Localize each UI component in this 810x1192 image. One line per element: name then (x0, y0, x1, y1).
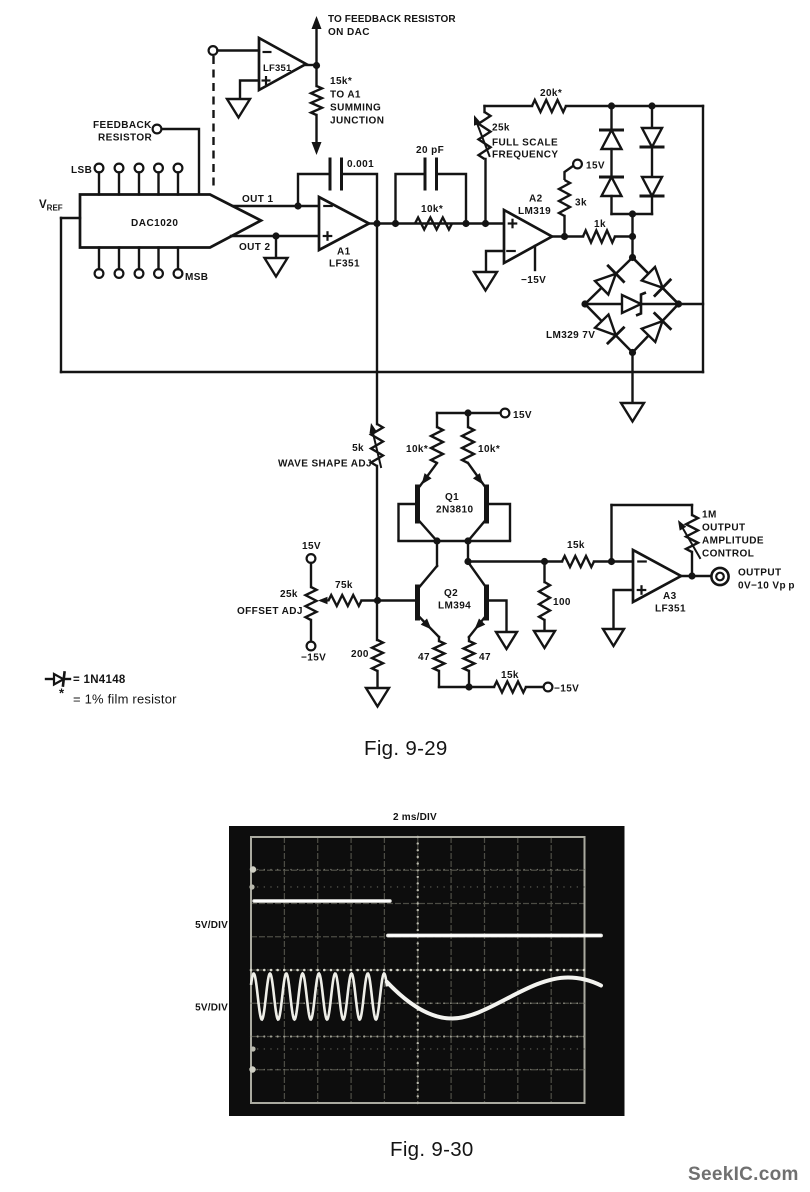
node: 1k / clamp junction (629, 233, 636, 240)
scope trace: lower square-wave low segment (388, 934, 601, 938)
wire: emitter rail (439, 686, 494, 688)
terminal: feedback resistor open circle (153, 125, 162, 134)
wire: A3 feedback top (612, 504, 693, 506)
svg-text:5V/DIV: 5V/DIV (195, 1003, 228, 1014)
svg-text:0V−10 Vp p: 0V−10 Vp p (738, 581, 795, 592)
node: Q2 output junction (464, 558, 471, 565)
wire: Q1 rail down to Q2 right collector (467, 541, 469, 562)
node: offset / Q2 base junction (374, 597, 381, 604)
node: 20pF right junction (462, 220, 469, 227)
node: bridge bottom (629, 349, 636, 356)
wiper arrow on offset pot (321, 600, 329, 602)
resistor R 47 (right) (464, 641, 475, 671)
svg-text:LF351: LF351 (655, 604, 686, 615)
svg-text:15V: 15V (586, 161, 605, 172)
svg-text:RESISTOR: RESISTOR (98, 133, 153, 144)
op-amp U4 LF351 feedback buffer (259, 38, 306, 90)
wire: offset pot top (310, 563, 312, 587)
capacitor C1 0.001 plates (329, 159, 332, 189)
svg-text:Fig. 9-29: Fig. 9-29 (364, 737, 448, 760)
wire: DAC OUT1 to A1 minus (233, 205, 319, 207)
svg-text:TO A1: TO A1 (330, 90, 361, 101)
wire: A3 feedback up (610, 505, 612, 562)
node: 15V rail / right 10k (464, 409, 471, 416)
arrow on 25k pot (477, 122, 490, 156)
ground below bridge (621, 403, 644, 422)
node: bridge right (675, 300, 682, 307)
wire: 75k to junction (362, 599, 378, 601)
wire: Q1 right base loop (487, 504, 511, 541)
wire: bottom rail of feedback loop (61, 371, 703, 373)
svg-text:20 pF: 20 pF (416, 145, 444, 156)
resistor R 15k (to -15V) (494, 682, 526, 693)
wire: input circle to U4 minus (218, 49, 260, 51)
svg-text:AMPLITUDE: AMPLITUDE (702, 536, 764, 547)
zener Z1 LM329 7V (622, 295, 641, 313)
svg-text:= 1% film resistor: = 1% film resistor (73, 692, 177, 707)
svg-text:−15V: −15V (301, 653, 326, 664)
svg-text:1M: 1M (702, 510, 717, 521)
scope faint dotted percent rows (250, 869, 252, 871)
resistor R 75k (329, 595, 362, 606)
ground below 100 (534, 631, 555, 648)
wire: A2 negative supply stub (534, 246, 536, 270)
wire: 200 bottom to ground (376, 671, 378, 688)
svg-text:ON DAC: ON DAC (328, 27, 370, 38)
svg-text:−15V: −15V (521, 275, 546, 286)
wire: offset junction down to 200 (376, 601, 378, 640)
transistor Q1 right emitter arrow (PNP) (473, 473, 483, 484)
arrow down to A1 summing junction (312, 142, 322, 155)
svg-text:LM329 7V: LM329 7V (546, 330, 595, 341)
scope trace: upper square-wave high segment (254, 899, 390, 902)
terminal: U4 inverting input open circle (209, 46, 218, 55)
svg-text:*: * (59, 686, 65, 701)
wire: left 47 top (438, 637, 440, 641)
svg-text:TO FEEDBACK RESISTOR: TO FEEDBACK RESISTOR (328, 14, 456, 25)
capacitor C2 20pF right leg (437, 174, 467, 224)
svg-text:SeekIC.com: SeekIC.com (688, 1164, 799, 1185)
diode D4 (right branch lower, pointing down) (642, 177, 662, 196)
wire: branch junction down to 1k node (631, 214, 633, 237)
wire: bridge edges (585, 258, 679, 353)
wire: Q2 output junction to A3 (468, 560, 562, 562)
transistor Q2 left collector wire (419, 566, 438, 588)
terminal: 15V for 3k (573, 160, 582, 169)
node: emitter rail junction (465, 683, 472, 690)
resistor R 10k* (A1 to A2) (415, 218, 452, 230)
transistor Q2 right collector wire (468, 562, 487, 588)
wire: A1 output to junction (369, 222, 378, 224)
wire: 1M bottom to output node (691, 552, 693, 576)
capacitor C2 20pF plates (424, 159, 427, 189)
oscilloscope bezel (black area) (229, 826, 625, 1116)
svg-text:25k: 25k (492, 123, 510, 134)
transistor Q2 left emitter arrow (NPN) (421, 619, 432, 630)
wire: 100 top (543, 562, 545, 583)
wire: Q1 rail down to Q2 left collector (436, 541, 438, 566)
svg-text:CONTROL: CONTROL (702, 549, 754, 560)
node: bridge top (629, 254, 636, 261)
node: U4 output junction (313, 62, 320, 69)
svg-text:15k*: 15k* (330, 76, 352, 87)
wire: bridge bottom to ground (631, 353, 633, 404)
wire: offset pot bottom (310, 620, 312, 642)
wire: A3 output (681, 575, 712, 577)
wire: 1k node down to bridge top (631, 237, 633, 258)
ground at A3 plus (603, 629, 624, 646)
wire: junction to resistor R15k top (315, 66, 317, 87)
node: A3 summing junction (608, 558, 615, 565)
svg-text:5k: 5k (352, 443, 364, 454)
node: Q1 rail left junction (433, 537, 440, 544)
node: A2 output / 3k junction (561, 233, 568, 240)
svg-text:15V: 15V (513, 410, 532, 421)
node: A1 output junction (373, 220, 380, 227)
node: A3 output junction (688, 572, 695, 579)
wire: feedback resistor circle to DAC top (162, 129, 200, 194)
transistor Q1 left emitter arrow (PNP) (422, 473, 432, 484)
scope percent marker blobs (250, 866, 256, 872)
svg-text:FREQUENCY: FREQUENCY (492, 150, 558, 161)
wire: right rail vertical of feedback loop (702, 106, 704, 372)
svg-text:3k: 3k (575, 198, 587, 209)
resistor R 100 (539, 582, 550, 620)
wire: DAC OUT2 to A1 plus (231, 235, 319, 237)
wire: right diode branch top (651, 106, 653, 127)
wire: right 47 bottom (468, 671, 470, 687)
ground at U4 plus input (227, 99, 250, 118)
arrow up TO FEEDBACK RESISTOR ON DAC (312, 16, 322, 29)
svg-text:15k: 15k (501, 670, 519, 681)
wire: right branch middle (651, 148, 653, 178)
potentiometer R 25k OFFSET ADJ body (306, 587, 317, 620)
wire: 100 bottom to ground (543, 620, 545, 631)
terminal: 15V (Q1 rail) (501, 409, 510, 418)
svg-text:FULL SCALE: FULL SCALE (492, 138, 558, 149)
svg-text:200: 200 (351, 649, 369, 660)
connector J1 output jack (711, 568, 728, 585)
ground at A2 minus (474, 272, 497, 291)
node: OUT2 ground junction (272, 232, 279, 239)
wire: junction up toward DAC feedback pin (315, 27, 317, 65)
diode D6 (bridge top-right) (642, 267, 663, 288)
wire: left branch middle (610, 149, 612, 177)
wire: top rail left segment (485, 105, 533, 107)
wire: 15V rail (Q1) (437, 412, 501, 414)
node: OUT1 / C0.001 junction (294, 202, 301, 209)
transistor Q1 right collector wire (468, 519, 487, 541)
DAC top pins (5, LSB side) (95, 164, 104, 173)
svg-text:LSB: LSB (71, 165, 92, 176)
svg-text:15V: 15V (302, 541, 321, 552)
wire: top rail corner to 25k pot (483, 106, 485, 112)
wire: feedback to 1M pot (691, 505, 693, 515)
svg-text:WAVE SHAPE ADJ: WAVE SHAPE ADJ (278, 459, 372, 470)
resistor R 3k pull-up (559, 180, 570, 216)
wire: right branch bottom (651, 197, 653, 215)
svg-text:OUT 2: OUT 2 (239, 242, 270, 253)
wire: left branch bottom (610, 196, 612, 214)
svg-text:A1: A1 (337, 247, 351, 258)
capacitor C1 0.001 right leg to A1 output (342, 174, 378, 224)
wire: zener across bridge (585, 303, 679, 305)
wire: R15k bottom to down arrow (315, 115, 317, 144)
svg-text:Q2: Q2 (444, 588, 458, 599)
wire: OUT2 junction down to ground (275, 236, 277, 258)
terminal: -15V (emitters) (544, 683, 553, 692)
transistor Q2 right emitter arrow (NPN) (475, 619, 486, 630)
svg-text:15k: 15k (567, 540, 585, 551)
svg-text:0.001: 0.001 (347, 159, 374, 170)
svg-text:OUT 1: OUT 1 (242, 194, 273, 205)
svg-text:LM319: LM319 (518, 206, 551, 217)
ground at OUT2 (265, 258, 288, 277)
wire: A2 minus input to ground (486, 251, 504, 272)
diode D2 (left branch lower, pointing up) (602, 177, 622, 196)
op-amp A1 LF351 (319, 197, 369, 250)
DAC U5 DAC1020 body (80, 195, 261, 248)
transistor Q1 left collector wire (418, 519, 438, 541)
transistor Q1 left base bar (415, 487, 420, 521)
wire: Q2 right base to ground (487, 601, 507, 633)
resistor R 47 (left) (434, 641, 445, 671)
resistor R 200 (372, 640, 383, 671)
scope trace: slow sine segment (387, 978, 601, 1019)
node: 25k pot junction on A2 input (482, 220, 489, 227)
svg-text:FEEDBACK: FEEDBACK (93, 120, 152, 131)
svg-text:Q1: Q1 (445, 492, 459, 503)
node: Q1 rail right junction (464, 537, 471, 544)
wire: 3k bottom to A2 output (563, 216, 565, 237)
wire: top rail right segment (566, 105, 703, 107)
arrow on 1M pot (682, 526, 701, 558)
svg-text:75k: 75k (335, 580, 353, 591)
arrow on 5k pot (373, 431, 382, 467)
resistor R 10k* (right) (462, 427, 474, 463)
svg-text:10k*: 10k* (421, 204, 443, 215)
wire: diode branches bottom tie (612, 213, 653, 215)
wire: A3 plus to ground (614, 590, 634, 629)
wire: U4 output to junction (306, 64, 317, 66)
scope graticule dotted tick rows (250, 969, 253, 972)
wire: 1k to diode network (615, 235, 633, 237)
node: top rail / right diode branch (648, 102, 655, 109)
wire: 3k top to 15V terminal (565, 166, 574, 180)
svg-text:47: 47 (418, 652, 430, 663)
wire: VREF to left rail (61, 217, 80, 219)
wire: right 47 top (468, 637, 470, 641)
wire: left diode branch top (610, 106, 612, 130)
node: diode branch bottom junction (629, 210, 636, 217)
svg-text:LM394: LM394 (438, 601, 471, 612)
transistor Q1 2N3810 right: emitter wire (468, 463, 485, 486)
svg-text:100: 100 (553, 597, 571, 608)
node: top rail / left diode branch (608, 102, 615, 109)
svg-text:= 1N4148: = 1N4148 (73, 674, 126, 686)
svg-text:JUNCTION: JUNCTION (330, 116, 384, 127)
diode D3 (right branch upper, pointing down) (642, 128, 662, 147)
wire: bridge right to feedback rail (679, 303, 704, 305)
potentiometer R 5k WAVE SHAPE ADJ body (371, 424, 383, 466)
resistor R 10k* (left) (431, 427, 443, 463)
transistor Q2 LM394 left base bar (415, 587, 420, 618)
wire: left rail vertical (VREF feedback loop) (60, 218, 62, 372)
svg-text:5V/DIV: 5V/DIV (195, 920, 228, 931)
wire: 15k to A3 minus (594, 560, 633, 562)
wire: 25k pot bottom to A2 input (484, 159, 486, 224)
svg-text:MSB: MSB (185, 272, 208, 283)
scope graticule grid lines (250, 837, 252, 1103)
wire: Q1 common rail (399, 540, 511, 542)
wire: left 10k top (436, 413, 438, 427)
op-amp A2 LM319 (504, 210, 552, 263)
resistor R 1k (583, 231, 615, 243)
dashed wire: input circle down to DAC (212, 56, 214, 190)
svg-text:A2: A2 (529, 194, 543, 205)
wire: Q1 left base loop (399, 504, 418, 541)
resistor R 20k* (532, 100, 566, 112)
diode D5 (bridge top-left) (595, 274, 616, 295)
transistor Q1 2N3810 left: emitter wire (420, 463, 437, 486)
scope trace: fast sine burst (251, 974, 387, 1020)
svg-text:LF351: LF351 (329, 259, 360, 270)
transistor Q1 right base bar (484, 487, 489, 521)
ground below 200 (366, 688, 389, 707)
wire: 15k to -15V terminal (526, 686, 544, 688)
transistor Q2 right emitter wire (469, 615, 487, 637)
svg-text:47: 47 (479, 652, 491, 663)
svg-text:OUTPUT: OUTPUT (738, 568, 782, 579)
diode D8 (bridge bottom-right) (642, 321, 663, 342)
diode D7 (bridge bottom-left) (595, 315, 616, 336)
capacitor C2 20pF left leg (396, 174, 426, 224)
wire: U4 plus input to ground (240, 81, 259, 100)
wire: Q2 left base to offset junction (377, 599, 418, 601)
wire: A2 output to 1k (552, 235, 583, 237)
wire: right 10k top (467, 413, 469, 427)
svg-text:2N3810: 2N3810 (436, 505, 473, 516)
svg-text:A3: A3 (663, 591, 677, 602)
svg-text:−15V: −15V (554, 684, 579, 695)
capacitor C1 0.001 feedback: left leg (298, 174, 330, 206)
resistor 15k* to A1 summing junction (311, 86, 322, 115)
svg-text:20k*: 20k* (540, 88, 562, 99)
op-amp A3 LF351 (633, 550, 681, 602)
DAC bottom pins (5, MSB side) (95, 269, 104, 278)
svg-text:10k*: 10k* (478, 444, 500, 455)
wire: 5k bottom to offset junction (376, 466, 378, 601)
svg-text:SUMMING: SUMMING (330, 103, 381, 114)
svg-text:LF351: LF351 (263, 63, 292, 74)
wire: left 47 bottom (438, 671, 440, 687)
svg-text:1k: 1k (594, 219, 606, 230)
transistor Q2 LM394 right base bar (484, 587, 489, 618)
node: 100 junction (541, 558, 548, 565)
node: 20pF left junction (392, 220, 399, 227)
ground at Q2 right base (496, 632, 517, 649)
svg-text:OFFSET ADJ: OFFSET ADJ (237, 606, 303, 617)
diode D1 (left branch upper, pointing up) (602, 130, 622, 149)
legend diode symbol (1N4148) (46, 678, 54, 680)
wire: A1 output to A2 plus input (377, 222, 504, 224)
svg-text:Fig. 9-30: Fig. 9-30 (390, 1138, 474, 1161)
svg-text:OUTPUT: OUTPUT (702, 523, 746, 534)
scope graticule frame (251, 837, 585, 1103)
transistor Q2 left emitter wire (418, 615, 440, 637)
svg-text:10k*: 10k* (406, 444, 428, 455)
potentiometer R 25k FULL SCALE FREQUENCY body (479, 112, 491, 159)
svg-text:2 ms/DIV: 2 ms/DIV (393, 812, 437, 823)
node: bridge left (581, 300, 588, 307)
resistor R 15k (to A3) (562, 556, 594, 567)
potentiometer R 1M OUTPUT AMPLITUDE CONTROL body (686, 515, 698, 552)
terminal: offset pot -15V (307, 642, 316, 651)
terminal: offset pot 15V (307, 554, 316, 563)
svg-text:25k: 25k (280, 589, 298, 600)
wire: A1 output down (wave shape line upper) (376, 224, 378, 425)
svg-text:DAC1020: DAC1020 (131, 218, 178, 229)
